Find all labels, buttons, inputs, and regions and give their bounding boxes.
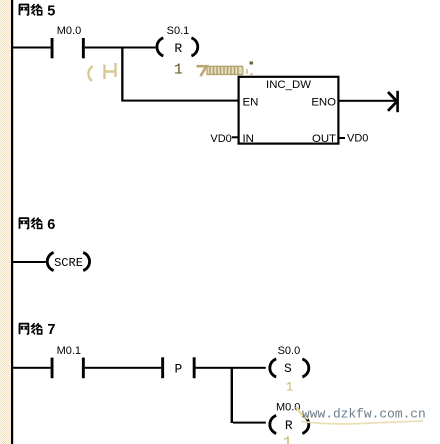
svg-text:S: S	[284, 361, 292, 376]
svg-text:1: 1	[174, 62, 183, 79]
svg-text:OUT: OUT	[312, 133, 336, 145]
svg-text:6: 6	[47, 217, 55, 233]
svg-text:EN: EN	[243, 96, 259, 108]
svg-text:P: P	[174, 362, 182, 377]
svg-text:R: R	[285, 418, 293, 433]
svg-text:5: 5	[47, 3, 55, 19]
svg-text:7: 7	[47, 322, 55, 338]
svg-text:R: R	[174, 41, 182, 56]
svg-text:VD0: VD0	[210, 133, 231, 145]
svg-text:www.dzkfw.com.cn: www.dzkfw.com.cn	[302, 407, 426, 422]
svg-text:S0.0: S0.0	[278, 345, 301, 357]
svg-text:ENO: ENO	[311, 96, 336, 108]
svg-text:M0.1: M0.1	[57, 345, 81, 357]
svg-text:IN: IN	[243, 133, 254, 145]
svg-text:SCRE: SCRE	[54, 256, 83, 270]
svg-text:M0.0: M0.0	[57, 25, 81, 37]
svg-text:1: 1	[283, 435, 292, 444]
svg-text:INC_DW: INC_DW	[266, 79, 311, 91]
svg-text:VD0: VD0	[347, 133, 368, 145]
svg-text:1: 1	[286, 381, 294, 395]
svg-text:S0.1: S0.1	[167, 25, 190, 37]
